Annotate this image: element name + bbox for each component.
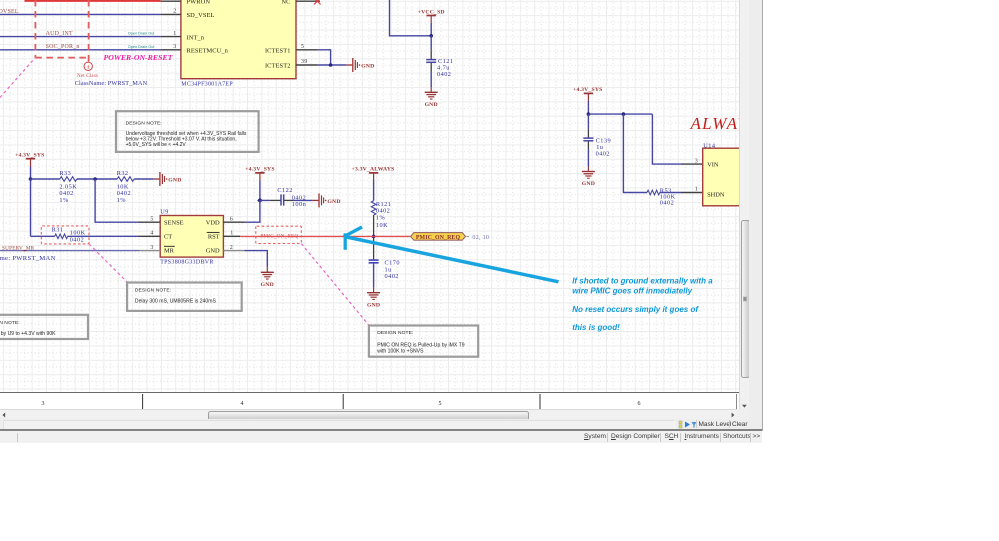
svg-text:TPS3808G33DBVR: TPS3808G33DBVR [160, 260, 214, 266]
ground GND earth (C139) [582, 167, 595, 188]
resistor R53 100K [647, 187, 676, 206]
wire C122 to gnd [294, 199, 313, 201]
svg-text:02, 10: 02, 10 [472, 235, 489, 241]
pin 5 ICTEST1 stub [296, 49, 317, 51]
ground GND bar (R32) [153, 172, 181, 186]
annotation text (cyan) [572, 277, 713, 332]
svg-text:1%: 1% [117, 197, 127, 204]
svg-text:DESIGN NOTE:: DESIGN NOTE: [126, 121, 162, 127]
ground GND bar (C122) [312, 193, 340, 207]
svg-text:SD_VSEL: SD_VSEL [187, 12, 215, 19]
svg-text:DESIGN NOTE:: DESIGN NOTE: [377, 330, 413, 336]
capacitor C121 4.7u 0402 [426, 58, 453, 78]
power +4.3V_SYS (left) [15, 153, 45, 180]
svg-text:GND: GND [582, 181, 595, 187]
power +VCC_SD [418, 9, 445, 36]
svg-text:+3.3V_ALWAYS: +3.3V_ALWAYS [352, 167, 395, 173]
svg-text:GND: GND [361, 64, 374, 70]
pin 2 GND stub [223, 250, 244, 252]
junction C139 [587, 112, 591, 116]
svg-text:MC34PF3001A7EP: MC34PF3001A7EP [181, 81, 233, 87]
op U14 regulator [703, 143, 748, 206]
svg-text:+4.3V_SYS: +4.3V_SYS [15, 153, 45, 159]
svg-text:GND: GND [327, 199, 340, 205]
wire SD_VSEL [0, 13, 161, 15]
junction [29, 177, 33, 181]
svg-text:GND: GND [206, 247, 220, 254]
pin NC stub [296, 0, 320, 2]
svg-text:SENSE: SENSE [164, 219, 184, 226]
svg-text:GND: GND [367, 303, 380, 309]
ic U? MC34PF3001A7EP [181, 0, 296, 87]
ground GND earth (C121) [425, 87, 438, 108]
wire RST to port (red net PMIC_ON_REQ) [240, 235, 410, 237]
svg-text:Net Class: Net Class [77, 74, 98, 79]
directive Net Class circle [75, 62, 148, 87]
capacitor C121 pins [430, 50, 432, 59]
svg-text:6: 6 [230, 216, 233, 222]
pin 1 RST stub [223, 235, 240, 237]
svg-text:+4.3V_SYS: +4.3V_SYS [573, 87, 603, 93]
svg-text:wire PMIC goes off inmediatell: wire PMIC goes off inmediatelly [572, 286, 692, 295]
note DESIGN NOTE 2 [127, 283, 242, 311]
svg-text:CT: CT [164, 234, 172, 241]
svg-text:OVSEL: OVSEL [0, 9, 19, 15]
ground GND earth (C170) [367, 288, 380, 309]
svg-text:2: 2 [230, 245, 233, 251]
wire down from junction1 [30, 179, 32, 236]
pin 5 SENSE stub [139, 221, 160, 223]
junction ICTEST [329, 63, 333, 67]
svg-text:DESIGN NOTE:: DESIGN NOTE: [0, 320, 20, 326]
svg-text:i: i [87, 65, 89, 71]
svg-text:0402: 0402 [660, 199, 674, 206]
svg-text:R33: R33 [59, 170, 71, 177]
svg-text:ICTEST2: ICTEST2 [265, 62, 291, 69]
svg-text:ALWAYS: ALWAYS [690, 114, 740, 133]
op U9 TPS3808G33DBVR [160, 209, 223, 266]
svg-text:1%: 1% [59, 197, 69, 204]
wire to R31 [31, 235, 55, 237]
wire R53 to SHDN [660, 192, 681, 194]
junction [622, 112, 626, 116]
svg-text:POWER-ON-RESET: POWER-ON-RESET [104, 53, 174, 62]
svg-text:0402: 0402 [376, 208, 390, 215]
wire SOC_POR_n [0, 49, 161, 51]
svg-text:R32: R32 [117, 170, 129, 177]
wire VCC_SD to C121 [430, 36, 432, 50]
svg-text:39: 39 [301, 59, 307, 65]
pin 1 stub [161, 36, 181, 38]
svg-text:No reset occurs simply it goes: No reset occurs simply it goes of [572, 305, 699, 314]
capacitor C139 pins [587, 130, 589, 138]
port PMIC_ON_REQ [411, 233, 490, 241]
ground GND bar (ICTEST) [346, 58, 374, 72]
pin 3 MR stub [139, 250, 160, 252]
pin 3 stub [161, 49, 181, 51]
wire power to R121 [373, 181, 375, 201]
svg-text:4: 4 [150, 231, 153, 237]
svg-text:AUD_INT: AUD_INT [46, 31, 73, 37]
wire PWRON red net [25, 0, 161, 2]
pin 3 VIN stub [681, 163, 703, 165]
svg-text:VIN: VIN [707, 162, 719, 169]
power +4.3V_SYS (mid) [245, 167, 275, 181]
resistor R32 10K [117, 170, 134, 204]
wire SHDN branch [623, 114, 647, 192]
wire ICTEST1 to gnd [317, 50, 330, 65]
pin C170 top [373, 236, 375, 259]
svg-text:INT_n: INT_n [187, 34, 205, 41]
svg-text:RST: RST [208, 234, 220, 241]
pin 4 CT stub [139, 235, 160, 237]
svg-text:0402: 0402 [437, 71, 451, 78]
svg-text:NC: NC [281, 0, 290, 6]
note DESIGN NOTE 1 [116, 111, 259, 152]
svg-text:1: 1 [173, 31, 176, 37]
wire R33-R32 [77, 178, 117, 180]
note DESIGN NOTE 3 [369, 326, 478, 357]
note DESIGN NOTE 4 (cut) [0, 315, 88, 339]
wire ICTEST2 to gnd [317, 64, 346, 66]
pin 6 VDD stub [223, 221, 245, 223]
capacitor C170 1u 0402 [369, 259, 400, 280]
svg-text:6: 6 [638, 401, 641, 407]
svg-text:1: 1 [695, 187, 698, 193]
svg-text:ClassName: PWRST_MAN: ClassName: PWRST_MAN [75, 80, 148, 87]
svg-text:2: 2 [173, 9, 176, 15]
svg-text:3: 3 [695, 158, 698, 164]
pin PWRON stub [161, 0, 181, 2]
svg-text:5: 5 [439, 401, 442, 407]
wire MR row [0, 250, 139, 252]
junction (selected, diamond) [257, 198, 262, 203]
junction [93, 177, 97, 181]
junction VCC_SD [429, 34, 433, 38]
svg-text:SHDN: SHDN [707, 192, 725, 199]
svg-text:GND: GND [168, 178, 181, 184]
link dashed line (R31 to note) [89, 244, 127, 282]
svg-text:RESETMCU_n: RESETMCU_n [187, 48, 229, 55]
wire junction to C122 [260, 199, 270, 201]
svg-text:U9: U9 [160, 209, 169, 216]
wire C121 to gnd [430, 72, 432, 88]
wire to C139 [587, 114, 589, 130]
svg-text:1: 1 [230, 231, 233, 237]
svg-text:3: 3 [42, 401, 45, 407]
link dashed line (label to note) [301, 244, 369, 326]
svg-text:with 100K to +SNVS: with 100K to +SNVS [377, 348, 424, 354]
svg-text:U14: U14 [703, 143, 716, 150]
svg-text:If shorted to ground externall: If shorted to ground externally with a [572, 277, 713, 286]
svg-text:SOC_POR_n: SOC_POR_n [46, 44, 80, 50]
svg-text:R31: R31 [52, 227, 64, 234]
svg-text:MR: MR [164, 247, 175, 254]
link dashed line (netclass) [0, 58, 35, 98]
resistor R31 100K (selected) [41, 226, 89, 244]
svg-text:3: 3 [150, 245, 153, 251]
pin 1 SHDN stub [681, 192, 703, 194]
blanket dashed (power-on-reset) [35, 0, 88, 62]
capacitor C122 100n 0402 [277, 187, 306, 208]
svg-text:Open Drain Out: Open Drain Out [128, 32, 156, 36]
wire from junction2 down to SENSE [95, 179, 139, 222]
pin R121 bottom [373, 215, 375, 236]
wire C139 to gnd [587, 149, 589, 167]
svg-text:0402: 0402 [70, 236, 84, 243]
svg-text:GND: GND [261, 282, 274, 288]
svg-text:5: 5 [150, 216, 153, 222]
svg-text:0402: 0402 [596, 151, 610, 158]
wire VIN branch [652, 114, 681, 164]
svg-text:100n: 100n [292, 201, 307, 208]
svg-text:VDD: VDD [206, 219, 220, 226]
svg-text:10K: 10K [376, 222, 388, 229]
svg-text:+5.0V_SYS will be < +4.2V: +5.0V_SYS will be < +4.2V [126, 142, 187, 148]
pin 2 stub [161, 13, 181, 15]
svg-text:4: 4 [241, 401, 244, 407]
wire junction down-left to VDD [246, 200, 260, 222]
wire to VCC_SD [390, 0, 432, 36]
svg-text:PMIC_ON_REQ: PMIC_ON_REQ [416, 235, 461, 241]
ground GND earth (U9) [261, 267, 274, 288]
svg-text:ICTEST1: ICTEST1 [265, 48, 291, 55]
svg-text:+4.3V_SYS: +4.3V_SYS [245, 167, 275, 173]
svg-text:SUPERV_MR: SUPERV_MR [2, 245, 35, 251]
svg-text:this is good!: this is good! [572, 323, 620, 332]
svg-text:C122: C122 [277, 187, 292, 194]
wire top to VIN [588, 113, 652, 115]
svg-text:ClassName: PWRST_MAN: ClassName: PWRST_MAN [0, 255, 56, 262]
node PMIC_ON_REQ label (selected) [256, 226, 301, 243]
svg-text:3: 3 [173, 44, 176, 50]
svg-text:Pulled-Up by U9 to +4.3V with: Pulled-Up by U9 to +4.3V with 90K [0, 331, 56, 337]
svg-text:1%: 1% [376, 215, 386, 222]
power +3.3V_ALWAYS [352, 167, 395, 181]
wire C170 to gnd [373, 263, 375, 288]
capacitor C139 1u 0402 [583, 137, 611, 157]
no-ERC marker X on NC [314, 0, 321, 4]
wire GND pin 2 down [245, 251, 268, 268]
svg-text:PWRON: PWRON [187, 0, 211, 6]
power +4.3V_SYS (right) [573, 87, 603, 114]
svg-text:5: 5 [301, 44, 304, 50]
wire AUD_INT [0, 36, 161, 38]
svg-text:Delay 300 mS, UM805RE is 240mS: Delay 300 mS, UM805RE is 240mS [135, 299, 217, 305]
wire to R33 [31, 178, 60, 180]
pin 39 ICTEST2 stub [296, 64, 317, 66]
svg-text:GND: GND [425, 102, 438, 108]
svg-text:Open Drain Out: Open Drain Out [128, 45, 156, 49]
capacitor C122 pins [270, 199, 281, 201]
wire power to junction [259, 181, 261, 201]
resistor R33 2.05K [59, 170, 77, 204]
svg-text:+VCC_SD: +VCC_SD [418, 9, 445, 15]
svg-text:0402: 0402 [385, 273, 399, 280]
svg-text:PMIC_ON_REQ: PMIC_ON_REQ [260, 233, 298, 239]
resistor R121 10K [371, 201, 391, 229]
wire R32 to gnd [134, 178, 153, 180]
svg-text:DESIGN NOTE:: DESIGN NOTE: [135, 287, 171, 293]
wire R31 to CT [68, 235, 139, 237]
junction PMIC_ON_REQ [372, 235, 376, 239]
annotation arrow (cyan) [344, 227, 559, 282]
